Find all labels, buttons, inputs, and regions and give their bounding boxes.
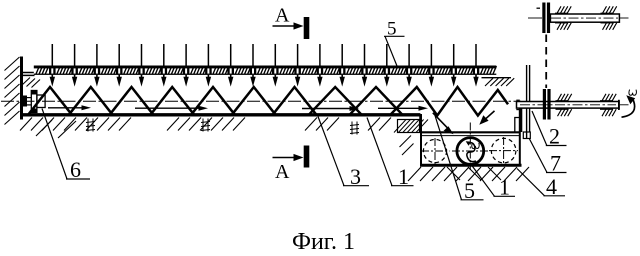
svg-text:1: 1 <box>398 164 409 189</box>
bearing bracket plate <box>523 65 530 139</box>
idler shaft <box>528 14 629 22</box>
left wall hatching <box>5 57 20 125</box>
trough end section block <box>394 120 428 133</box>
anchor mark 1 <box>86 119 95 132</box>
svg-text:1: 1 <box>499 175 510 200</box>
drum rotation arrow <box>466 141 476 161</box>
svg-text:5: 5 <box>464 178 475 203</box>
housing 4 <box>420 108 522 166</box>
svg-text:5: 5 <box>387 19 397 40</box>
screw shaft centre line <box>1 100 521 102</box>
svg-text:А: А <box>275 5 290 27</box>
drive pulley <box>543 89 551 120</box>
svg-text:3: 3 <box>350 164 361 189</box>
section mark A bottom <box>273 146 309 167</box>
label 5 lower <box>435 116 484 200</box>
idler pulley <box>542 3 550 34</box>
drive drum (omega) <box>452 123 489 171</box>
omega symbol in drum <box>472 143 479 149</box>
foundation hatching under trough <box>20 118 391 139</box>
svg-text:2: 2 <box>549 124 560 149</box>
label 7 wall <box>530 139 567 173</box>
belt line <box>545 35 547 89</box>
label 1 trough <box>367 118 414 186</box>
drive shaft bearing pads <box>556 94 617 116</box>
feed arrows <box>50 44 479 87</box>
svg-text:6: 6 <box>70 157 81 182</box>
svg-text:А: А <box>275 161 290 183</box>
feed arrows into housing <box>433 111 495 134</box>
material flow arrows <box>48 105 428 111</box>
trough bottom 1 <box>20 114 420 133</box>
bearing 6 <box>23 91 45 113</box>
rotation arc omega <box>622 95 636 117</box>
anchor mark 3 <box>350 122 359 135</box>
left wall <box>20 57 35 120</box>
label 6 bearing <box>42 109 90 180</box>
idler shaft bearing pads <box>555 6 617 30</box>
mark near idler pulley <box>537 7 541 9</box>
right roller (dashed) <box>489 137 518 165</box>
svg-text:7: 7 <box>550 151 561 176</box>
end wall 7 <box>515 109 522 133</box>
cover bar right support <box>482 78 515 86</box>
svg-text:Фиг. 1: Фиг. 1 <box>292 229 355 255</box>
screw 3 (helix flights) <box>29 87 509 116</box>
label 5 grate <box>384 36 405 66</box>
label 1 right <box>472 165 516 196</box>
label 2 shaft <box>532 111 567 146</box>
drive shaft 2 <box>516 100 628 110</box>
label 4 housing <box>517 169 565 196</box>
anchor mark 2 <box>201 119 210 132</box>
left roller (dashed) <box>421 138 450 165</box>
hatching below housing <box>400 136 530 182</box>
hatching under wall ledge <box>22 78 41 88</box>
section mark A top <box>273 18 309 39</box>
svg-text:4: 4 <box>546 174 557 199</box>
label 3 screw <box>318 117 369 186</box>
omega label <box>629 90 636 96</box>
cover grate 5 <box>34 66 497 75</box>
